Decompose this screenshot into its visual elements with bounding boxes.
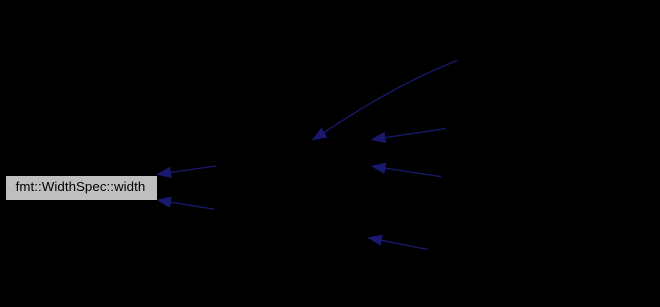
edge: caller right-lower to lower middle node — [369, 235, 429, 249]
edge: middle node to fmt::WidthSpec::width (upper) — [158, 166, 216, 177]
edge: lower middle node to fmt::WidthSpec::width (lower) — [158, 197, 215, 209]
edge: caller (top right) to middle node, curved — [313, 60, 458, 140]
edge: caller right-upper to middle node — [372, 129, 446, 143]
edge: caller right-middle to middle node — [372, 163, 441, 176]
node: fmt::WidthSpec::width (current node, grey filled) — [5, 175, 158, 201]
